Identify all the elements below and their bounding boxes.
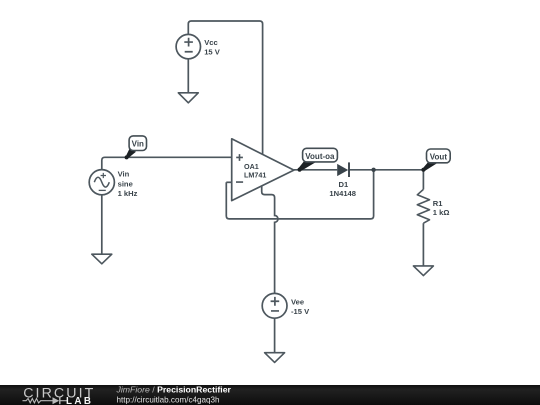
svg-text:1N4148: 1N4148 [329,189,356,198]
svg-text:LAB: LAB [66,395,93,405]
svg-text:http://circuitlab.com/c4gaq3h: http://circuitlab.com/c4gaq3h [117,395,220,404]
svg-text:D1: D1 [339,180,349,189]
svg-text:1 kΩ: 1 kΩ [433,208,450,217]
svg-text:sine: sine [118,180,133,189]
svg-text:R1: R1 [433,199,443,208]
svg-text:LM741: LM741 [244,171,266,180]
svg-text:Vout: Vout [430,153,448,162]
svg-text:Vee: Vee [291,298,304,307]
svg-text:1 kHz: 1 kHz [118,189,138,198]
svg-text:JimFiore / PrecisionRectifier: JimFiore / PrecisionRectifier [116,385,232,395]
svg-text:-15 V: -15 V [291,307,310,316]
svg-text:Vin: Vin [118,170,130,179]
svg-text:15 V: 15 V [204,47,221,56]
svg-text:Vout-oa: Vout-oa [305,152,335,161]
svg-text:Vcc: Vcc [204,38,218,47]
svg-text:Vin: Vin [132,139,144,148]
svg-text:OA1: OA1 [244,162,259,171]
